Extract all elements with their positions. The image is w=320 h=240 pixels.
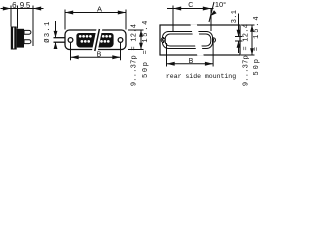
front B arrow right: [112, 55, 120, 59]
rear panel rectangle: [160, 25, 240, 55]
svg-text:B: B: [189, 58, 194, 65]
rear break gap: [191, 24, 204, 55]
svg-text:50p = 15.4: 50p = 15.4: [142, 19, 150, 78]
svg-text:9.5: 9.5: [20, 1, 31, 10]
rear hole left: [163, 39, 166, 42]
svg-text:B: B: [97, 52, 102, 59]
A arrow left: [65, 11, 73, 15]
front view flange outline: [65, 30, 126, 50]
svg-text:50p = 15.4: 50p = 15.4: [253, 14, 261, 75]
extension line x=33: [32, 6, 34, 47]
side view solder cup bottom: [24, 40, 31, 44]
A extension line right: [125, 10, 127, 30]
rear height ext bottom: [241, 54, 255, 56]
front view mounting hole left: [68, 38, 73, 43]
10 deg vertical line: [210, 9, 212, 32]
rear 3.1 arrow line lower: [238, 41, 240, 53]
C extension line left: [172, 6, 174, 33]
rear shell inner contour: [165, 34, 211, 46]
10 deg slant line: [209, 2, 214, 22]
rear B arrow left: [167, 62, 175, 66]
svg-text:Ø3.1: Ø3.1: [43, 20, 52, 42]
rear height ext top: [241, 24, 255, 26]
dia 3.1 arrow line upper: [55, 21, 57, 38]
svg-text:C: C: [188, 2, 193, 9]
A extension line left: [64, 10, 66, 30]
rear 3.1 tick top: [235, 36, 243, 38]
extension line x=11: [10, 6, 12, 27]
front B extension line right: [120, 43, 122, 61]
rear B ext left: [166, 43, 168, 67]
svg-text:10°: 10°: [215, 0, 226, 9]
side view dim arrow right (points left, tip x=33): [33, 7, 41, 11]
svg-text:9...37p = 12.4: 9...37p = 12.4: [131, 24, 139, 86]
front view break gap: [92, 29, 102, 51]
10 deg arrow: [210, 10, 216, 16]
rear 3.1 arrow line upper: [238, 14, 240, 37]
rear right bump: [213, 38, 215, 43]
svg-text:rear side mounting: rear side mounting: [166, 73, 236, 80]
side view dimension line: [1, 8, 44, 10]
rear B dimension line: [167, 63, 214, 65]
front B extension line left: [70, 43, 72, 61]
side view body: [17, 29, 24, 48]
rear B arrow right: [205, 62, 213, 66]
dia 3.1 arrow line lower: [55, 42, 57, 48]
side view dim arrow left (points right, tip x=11): [3, 7, 11, 11]
front view mounting hole right: [118, 38, 123, 43]
C arrow left: [173, 7, 181, 11]
dia 3.1 extension lines: [54, 38, 65, 43]
C arrow right: [203, 7, 211, 11]
extension line x=17.5: [17, 6, 19, 29]
A arrow right: [118, 11, 126, 15]
pins bottom row: [81, 40, 110, 43]
pins top row: [79, 35, 112, 38]
front view break sliver: [95, 29, 100, 51]
svg-text:9...37p = 12.4: 9...37p = 12.4: [243, 24, 251, 86]
front right ext line top: [128, 29, 144, 31]
front right ext line bottom: [128, 49, 144, 51]
front B arrow left: [71, 55, 79, 59]
rear B ext right: [212, 43, 214, 67]
svg-text:A: A: [97, 4, 102, 13]
side view solder cup top: [24, 30, 31, 34]
rear C dimension line: [167, 8, 214, 10]
side view flange white slot: [13, 28, 14, 49]
front B dimension line: [71, 56, 121, 58]
front view A dimension line: [65, 12, 126, 14]
front view D-sub insert: [76, 33, 113, 48]
rear height dimension line: [251, 25, 253, 55]
rear left bump: [161, 38, 163, 43]
svg-text:3.1: 3.1: [231, 10, 239, 24]
rear hole right dot: [213, 39, 215, 41]
rear shell outer contour: [163, 32, 213, 49]
front height dimension line: [140, 30, 142, 50]
rear 3.1 tick bottom: [235, 40, 243, 42]
side view flange: [11, 27, 17, 50]
